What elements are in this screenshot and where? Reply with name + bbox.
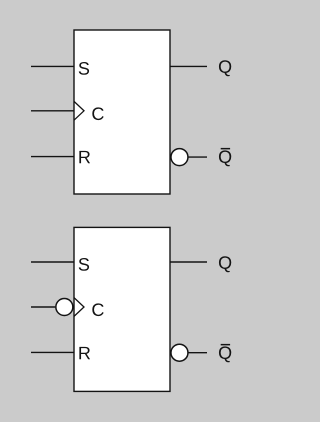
wire R2 input <box>31 351 74 353</box>
pin label S1 <box>79 62 89 75</box>
pin label C1 <box>92 107 103 120</box>
wire Q1 output <box>170 65 207 67</box>
pin label S2 <box>79 258 89 271</box>
inversion bubble U2 clock <box>56 299 73 316</box>
wire C1 input <box>31 110 74 112</box>
inversion bubble U2 Q-bar <box>171 344 188 361</box>
wire Q1-bar output <box>189 156 208 158</box>
node Q2-bar <box>219 346 231 362</box>
pin label R2 <box>79 347 90 359</box>
node Q1 <box>219 60 231 76</box>
inversion bubble U1 Q-bar <box>171 149 188 166</box>
flip-flop U2 body <box>74 227 170 391</box>
node Q1-bar <box>219 150 231 166</box>
pin label R1 <box>79 151 90 163</box>
flip-flop U1 body <box>74 30 170 194</box>
wire S1 input <box>31 65 74 67</box>
clock edge-trigger chevron U2 <box>74 298 84 317</box>
wire Q2 output <box>170 261 207 263</box>
node Q2 <box>219 256 231 272</box>
wire S2 input <box>31 261 74 263</box>
clock edge-trigger chevron U1 <box>74 101 84 120</box>
overbar Q2-bar <box>221 344 230 346</box>
wire Q2-bar output <box>189 352 208 354</box>
wire R1 input <box>31 156 74 158</box>
pin label C2 <box>92 303 103 316</box>
wire C2 input <box>31 306 55 308</box>
overbar Q1-bar <box>221 148 230 150</box>
